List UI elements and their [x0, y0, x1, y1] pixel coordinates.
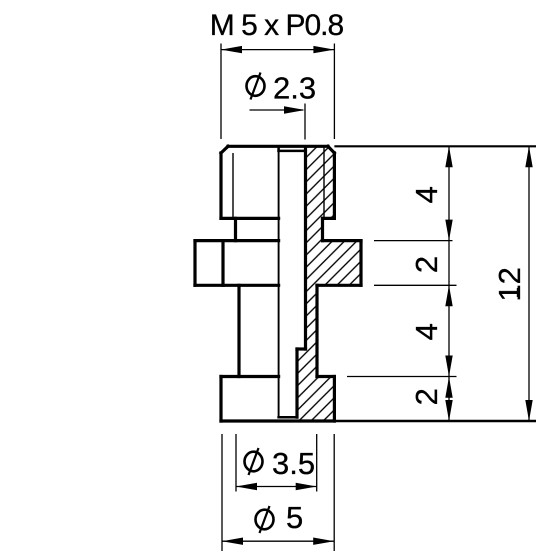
svg-text:4: 4	[409, 323, 444, 340]
svg-text:M 5 x P0.8: M 5 x P0.8	[210, 9, 344, 42]
svg-text:2: 2	[409, 256, 444, 273]
svg-text:4: 4	[409, 186, 444, 203]
svg-text:5: 5	[286, 500, 303, 535]
svg-text:3.5: 3.5	[272, 446, 315, 481]
svg-text:2: 2	[409, 388, 444, 405]
svg-text:12: 12	[492, 267, 527, 301]
svg-text:2.3: 2.3	[273, 71, 316, 106]
